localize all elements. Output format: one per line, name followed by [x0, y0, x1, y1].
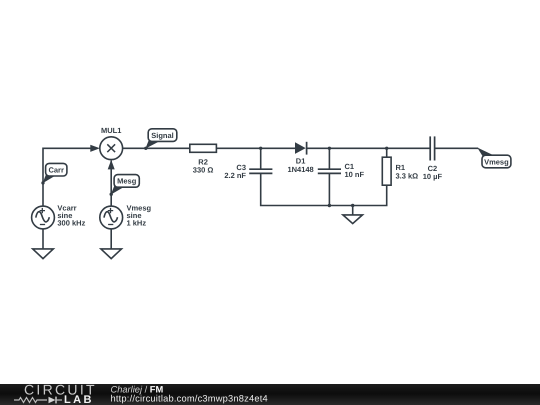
- footer bar: [0, 384, 540, 405]
- wire: [110, 229, 112, 249]
- net flag Vmesg: [477, 148, 511, 168]
- net flag Signal: [145, 129, 176, 149]
- logo diode: [49, 397, 63, 404]
- wire: [328, 148, 330, 169]
- svg-text:D1: D1: [296, 156, 306, 165]
- wire: [435, 147, 479, 149]
- node junction ground rail: [351, 204, 354, 207]
- net flag Mesg: [111, 175, 140, 195]
- svg-text:Carr: Carr: [48, 166, 64, 175]
- ground: [101, 249, 122, 259]
- resistor R2: [190, 144, 217, 174]
- voltage source Vmesg: [100, 204, 152, 229]
- svg-text:MUL1: MUL1: [101, 126, 121, 135]
- net flag Carr: [43, 163, 67, 183]
- ground: [33, 249, 54, 259]
- node Signal junction: [144, 147, 147, 150]
- logo resistor zigzag: [14, 398, 47, 403]
- wire: [261, 173, 387, 205]
- wire: [110, 161, 112, 207]
- node junction C1 bottom: [328, 204, 331, 207]
- svg-text:300 kHz: 300 kHz: [57, 219, 85, 228]
- arrow into MUL1 X input: [90, 145, 100, 152]
- wire: [307, 147, 431, 149]
- node junction R1 top: [385, 147, 388, 150]
- svg-text:http://circuitlab.com/c3mwp3n8: http://circuitlab.com/c3mwp3n8z4et4: [111, 394, 268, 404]
- node junction C1 top: [328, 147, 331, 150]
- capacitor C2: [423, 136, 443, 181]
- arrow into MUL1 Y input: [108, 160, 115, 170]
- wire: [43, 148, 92, 206]
- wire: [328, 173, 330, 205]
- node Carr attach: [41, 181, 44, 184]
- voltage source Vcarr: [32, 204, 86, 229]
- svg-text:3.3 kΩ: 3.3 kΩ: [396, 172, 419, 181]
- svg-text:10 nF: 10 nF: [345, 170, 365, 179]
- svg-text:Mesg: Mesg: [117, 177, 137, 186]
- diode D1: [287, 142, 313, 174]
- svg-text:Vmesg: Vmesg: [484, 157, 509, 166]
- svg-text:2.2 nF: 2.2 nF: [224, 171, 246, 180]
- node Mesg attach: [110, 193, 113, 196]
- svg-text:1N4148: 1N4148: [287, 165, 313, 174]
- capacitor C1: [318, 162, 365, 179]
- wire: [216, 147, 295, 149]
- wire: [42, 229, 44, 249]
- svg-text:10 µF: 10 µF: [423, 172, 443, 181]
- svg-text:330 Ω: 330 Ω: [193, 166, 214, 175]
- multiplier MUL1: [100, 126, 123, 159]
- wire: [123, 147, 190, 149]
- node junction C3 top: [259, 147, 262, 150]
- resistor R1: [382, 148, 418, 185]
- capacitor C3: [224, 163, 272, 180]
- ground: [343, 206, 363, 224]
- svg-text:Signal: Signal: [151, 131, 174, 140]
- wire: [260, 148, 262, 169]
- svg-text:LAB: LAB: [64, 394, 94, 405]
- svg-text:1 kHz: 1 kHz: [127, 219, 147, 228]
